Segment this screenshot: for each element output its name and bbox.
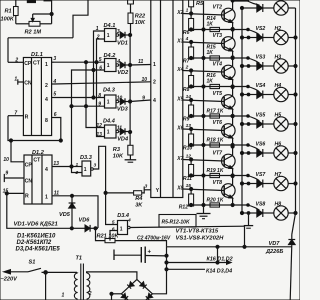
svg-text:1K: 1K [207,79,214,85]
svg-text:1: 1 [96,26,99,32]
svg-text:3: 3 [145,184,148,190]
svg-text:12: 12 [186,154,192,160]
svg-text:1K: 1K [207,22,214,28]
svg-text:R: R [25,194,29,200]
svg-text:R21 10K: R21 10K [97,234,120,240]
svg-text:VD3: VD3 [117,106,129,112]
svg-text:R19 1K: R19 1K [207,168,224,174]
svg-text:10K: 10K [135,20,146,26]
svg-text:1: 1 [75,162,78,168]
svg-text:10K: 10K [113,154,124,160]
svg-text:1: 1 [107,100,110,106]
svg-text:15: 15 [186,183,192,189]
svg-text:8: 8 [45,118,48,124]
svg-text:Д226Б: Д226Б [265,249,283,255]
svg-text:9: 9 [5,171,8,177]
svg-text:VS8: VS8 [256,201,266,207]
svg-text:2: 2 [88,291,92,297]
svg-text:R22: R22 [135,14,146,20]
svg-text:VD4: VD4 [117,137,129,143]
svg-text:9: 9 [142,96,145,102]
svg-text:1: 1 [153,62,156,68]
svg-text:К16 D1,D2: К16 D1,D2 [207,256,233,262]
svg-text:5: 5 [112,219,115,225]
svg-text:2: 2 [96,35,100,41]
svg-text:D3,D4-К561ЛЕ5: D3,D4-К561ЛЕ5 [16,247,61,253]
svg-text:3K: 3K [135,203,143,209]
svg-text:VD1: VD1 [117,40,128,46]
svg-text:+: + [148,250,152,256]
svg-text:4: 4 [153,98,156,104]
svg-text:VD2: VD2 [117,70,129,76]
svg-text:D1-К561ИЕ10: D1-К561ИЕ10 [17,234,56,240]
svg-text:3: 3 [117,29,120,35]
svg-text:1: 1 [107,130,110,136]
svg-text:9: 9 [98,102,101,108]
svg-text:VT2: VT2 [213,5,223,11]
svg-text:D2-К561КП2: D2-К561КП2 [17,240,52,246]
svg-text:1: 1 [45,62,48,68]
svg-text:R5: R5 [196,1,204,7]
svg-text:2: 2 [153,80,156,86]
svg-text:R6: R6 [183,30,190,36]
svg-text:D1.2: D1.2 [32,150,45,156]
svg-text:3: 3 [53,56,56,62]
svg-text:R12: R12 [179,205,188,211]
svg-text:VT7: VT7 [213,151,224,157]
svg-text:D1.1: D1.1 [31,52,43,58]
svg-text:10: 10 [3,157,9,163]
svg-text:R3: R3 [113,147,121,153]
svg-text:4: 4 [45,97,48,103]
svg-text:VT1-VT8-КТ315: VT1-VT8-КТ315 [176,229,219,235]
svg-text:К14 D3,D4: К14 D3,D4 [206,269,232,275]
svg-text:R20 1K: R20 1K [207,197,224,203]
svg-text:100K: 100K [1,17,15,23]
svg-text:1: 1 [84,167,87,173]
svg-text:VS2: VS2 [256,26,266,32]
svg-text:X5: X5 [176,96,183,102]
svg-text:R5-R12-10K: R5-R12-10K [162,219,190,225]
svg-text:4: 4 [45,167,48,173]
svg-text:VT4: VT4 [213,62,223,68]
svg-text:VT5: VT5 [213,91,223,97]
svg-text:VD6: VD6 [79,217,91,223]
svg-text:4: 4 [185,36,189,42]
svg-text:D4.4: D4.4 [103,118,116,124]
svg-text:R7: R7 [183,59,190,65]
svg-text:X6: X6 [176,125,183,131]
svg-text:1: 1 [107,63,110,69]
svg-text:4: 4 [116,59,120,65]
svg-text:CT: CT [33,60,41,66]
svg-text:12: 12 [96,123,102,129]
svg-text:2: 2 [74,170,78,176]
svg-text:CN: CN [24,80,32,86]
svg-text:S1: S1 [29,260,36,266]
svg-text:5: 5 [53,92,56,98]
svg-text:VS6: VS6 [256,141,266,147]
svg-text:R18 1K: R18 1K [207,137,224,143]
svg-text:1: 1 [107,33,110,39]
svg-text:10: 10 [142,77,148,83]
svg-text:VS1-VS8-КУ202Н: VS1-VS8-КУ202Н [176,236,225,242]
svg-text:13: 13 [186,123,192,129]
svg-text:11: 11 [138,59,143,65]
svg-text:4: 4 [127,218,131,224]
svg-text:X7: X7 [176,156,183,162]
svg-text:2: 2 [45,83,48,89]
svg-text:Y: Y [156,188,160,194]
svg-text:1: 1 [186,8,189,14]
svg-text:8: 8 [98,93,101,99]
svg-text:CT: CT [33,158,41,164]
svg-text:14: 14 [186,94,192,100]
svg-text:R: R [25,114,29,120]
svg-text:6: 6 [99,65,102,71]
svg-text:CN: CN [25,179,33,185]
svg-text:D4.2: D4.2 [104,53,117,59]
svg-text:VT8: VT8 [213,180,223,186]
svg-text:VD1-VD6 КД521: VD1-VD6 КД521 [14,222,58,228]
svg-text:2: 2 [185,65,189,71]
svg-text:R17 1K: R17 1K [207,108,224,114]
svg-text:VS7: VS7 [256,172,267,178]
svg-text:T1: T1 [76,256,83,262]
svg-text:1: 1 [45,194,48,200]
svg-text:13: 13 [96,132,102,138]
svg-text:R2 1M: R2 1M [25,30,42,36]
svg-text:R8: R8 [183,87,190,93]
svg-text:1: 1 [14,76,17,82]
svg-text:VS4: VS4 [256,83,266,89]
svg-text:VT3: VT3 [213,33,223,39]
svg-text:1: 1 [62,293,65,299]
svg-text:X4: X4 [176,67,183,73]
svg-text:CP: CP [25,163,33,169]
svg-text:~220V: ~220V [1,277,19,283]
svg-text:6: 6 [112,227,115,233]
svg-text:D4.1: D4.1 [104,23,116,29]
svg-text:D3.3: D3.3 [80,155,93,161]
svg-text:5: 5 [99,57,102,63]
svg-text:1: 1 [120,226,123,232]
svg-text:R1: R1 [5,9,12,15]
svg-text:1K: 1K [207,50,214,56]
svg-text:D4.3: D4.3 [103,88,116,94]
svg-text:3: 3 [93,162,96,168]
svg-text:X2: X2 [176,10,183,16]
svg-text:R4: R4 [135,196,143,202]
svg-text:VD5: VD5 [59,212,71,218]
svg-text:X3: X3 [176,38,183,44]
svg-text:X8: X8 [176,185,183,191]
svg-text:R9: R9 [183,117,190,123]
svg-text:CP: CP [24,61,32,67]
svg-text:C2 4700м·16V: C2 4700м·16V [137,235,171,241]
svg-text:VT6: VT6 [213,120,223,126]
svg-text:VS3: VS3 [256,54,266,60]
svg-text:VS5: VS5 [256,112,266,118]
